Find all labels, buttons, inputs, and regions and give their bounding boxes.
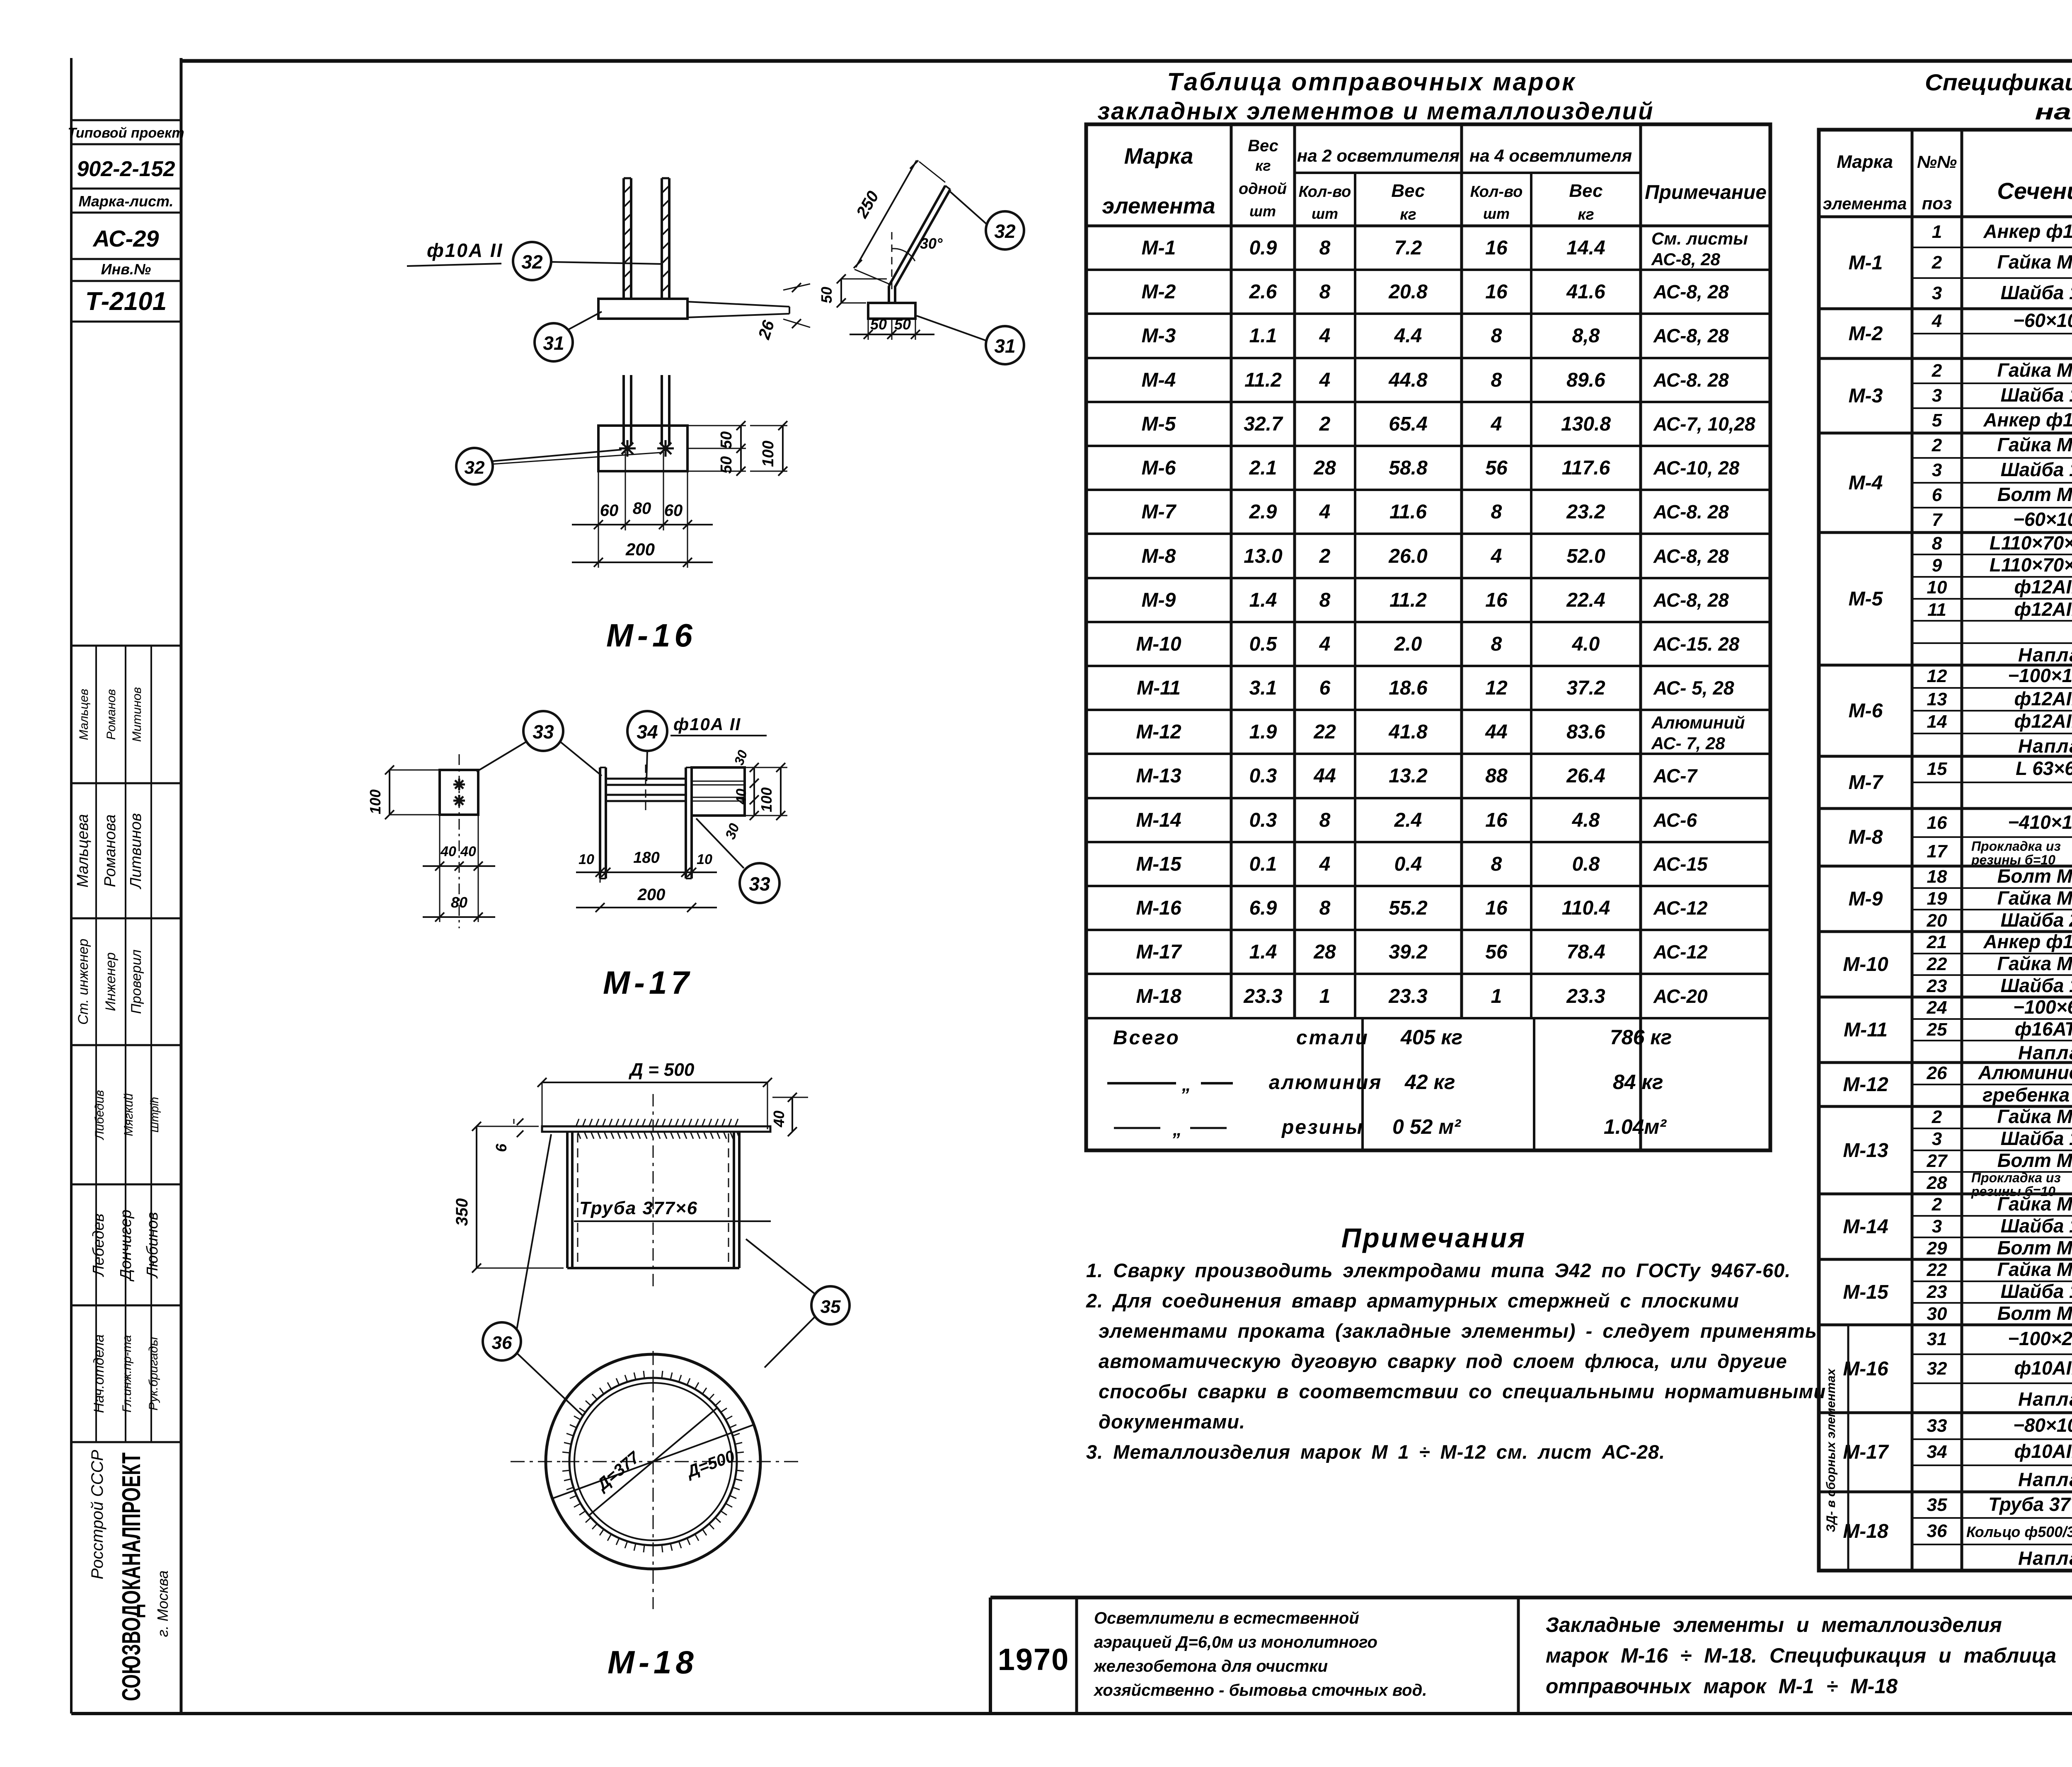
svg-text:Марка: Марка: [1124, 144, 1193, 169]
svg-text:L 63×6: L 63×6: [2016, 758, 2072, 779]
svg-text:Наплавленный металл:: Наплавленный металл:: [2018, 1547, 2072, 1569]
svg-text:М-4: М-4: [1142, 369, 1176, 391]
svg-text:9: 9: [1932, 555, 1942, 576]
svg-text:Либедив: Либедив: [93, 1090, 107, 1140]
svg-text:Прокладка из: Прокладка из: [1971, 839, 2061, 854]
svg-text:СОЮЗВОДОКАНАЛПРОЕКТ: СОЮЗВОДОКАНАЛПРОЕКТ: [117, 1452, 146, 1701]
svg-text:56: 56: [1485, 457, 1508, 479]
svg-text:1: 1: [1491, 985, 1502, 1007]
svg-text:М-4: М-4: [1849, 472, 1883, 494]
svg-text:способы сварки в соответств: способы сварки в соответствии со специал…: [1099, 1380, 1826, 1402]
svg-text:Шайба 20: Шайба 20: [2001, 909, 2072, 931]
svg-text:АС-29: АС-29: [92, 225, 159, 252]
svg-text:10: 10: [579, 852, 594, 867]
svg-text:2.9: 2.9: [1249, 501, 1277, 523]
svg-text:32: 32: [521, 251, 543, 273]
svg-text:16: 16: [1485, 589, 1508, 611]
svg-text:М-17: М-17: [1136, 941, 1182, 963]
svg-text:Типовой проект: Типовой проект: [68, 125, 184, 141]
svg-text:Наплавленный металл:: Наплавленный металл:: [2018, 735, 2072, 757]
svg-text:Шайба 12: Шайба 12: [2001, 975, 2072, 996]
svg-text:1.04м²: 1.04м²: [1604, 1115, 1667, 1138]
svg-text:8: 8: [1491, 853, 1502, 875]
svg-text:29: 29: [1927, 1238, 1947, 1259]
svg-text:78.4: 78.4: [1566, 941, 1605, 963]
svg-text:М-18: М-18: [608, 1644, 698, 1680]
svg-text:8,8: 8,8: [1572, 325, 1600, 347]
svg-text:АС-8, 28: АС-8, 28: [1651, 249, 1721, 269]
svg-text:44: 44: [1485, 721, 1507, 743]
svg-text:Любинов: Любинов: [144, 1212, 161, 1279]
svg-text:Мальцев: Мальцев: [77, 689, 91, 740]
svg-text:28: 28: [1927, 1173, 1947, 1193]
svg-text:Литвинов: Литвинов: [127, 813, 145, 890]
svg-text:25: 25: [1927, 1019, 1947, 1040]
svg-text:1.4: 1.4: [1249, 941, 1277, 963]
svg-text:М-3: М-3: [1142, 325, 1176, 347]
svg-text:26.0: 26.0: [1388, 545, 1428, 567]
svg-text:−410×10: −410×10: [2008, 811, 2072, 833]
svg-text:88: 88: [1485, 765, 1508, 787]
svg-text:83.6: 83.6: [1566, 721, 1605, 743]
svg-text:хозяйственно - бытовьа сточны: хозяйственно - бытовьа сточных вод.: [1093, 1681, 1427, 1699]
svg-text:3: 3: [1932, 1216, 1942, 1237]
svg-text:Кольцо ф500/379 б-6: Кольцо ф500/379 б-6: [1966, 1523, 2072, 1540]
svg-text:М-5: М-5: [1142, 413, 1176, 435]
svg-text:26: 26: [1927, 1063, 1947, 1083]
svg-text:М-16: М-16: [606, 617, 697, 654]
svg-text:4.4: 4.4: [1394, 325, 1422, 347]
svg-text:33: 33: [533, 721, 554, 743]
svg-text:ф16АТ: ф16АТ: [2015, 1018, 2072, 1040]
svg-text:АС- 7, 28: АС- 7, 28: [1651, 733, 1725, 753]
svg-text:Гайка М16: Гайка М16: [1997, 359, 2072, 381]
svg-text:130.8: 130.8: [1561, 413, 1611, 435]
svg-text:22.4: 22.4: [1566, 589, 1605, 611]
svg-text:−100×28: −100×28: [2008, 1328, 2072, 1349]
svg-text:Примечание: Примечание: [1645, 182, 1767, 203]
svg-text:56: 56: [1485, 941, 1508, 963]
svg-text:1.4: 1.4: [1249, 589, 1277, 611]
svg-text:22: 22: [1927, 954, 1947, 974]
svg-text:3.1: 3.1: [1249, 677, 1277, 699]
svg-text:42 кг: 42 кг: [1404, 1070, 1455, 1094]
svg-text:отправочных марок М: отправочных марок М-1 ÷ М-18: [1546, 1675, 1898, 1698]
svg-text:−80×10: −80×10: [2013, 1414, 2072, 1436]
svg-text:Т-2101: Т-2101: [85, 287, 167, 316]
svg-text:1970: 1970: [998, 1642, 1070, 1677]
svg-text:Болт М16: Болт М16: [1997, 1237, 2072, 1259]
svg-text:36: 36: [492, 1333, 512, 1353]
svg-text:16: 16: [1485, 237, 1508, 259]
svg-text:8: 8: [1319, 237, 1331, 259]
svg-text:−60×10: −60×10: [2013, 310, 2072, 331]
svg-text:алюминия: алюминия: [1269, 1072, 1382, 1094]
svg-text:кг: кг: [1578, 206, 1594, 223]
svg-text:М-11: М-11: [1844, 1019, 1888, 1041]
svg-text:АС-10, 28: АС-10, 28: [1653, 457, 1740, 479]
svg-text:41.6: 41.6: [1566, 281, 1605, 303]
svg-text:М-1: М-1: [1142, 237, 1176, 259]
svg-text:40: 40: [733, 789, 749, 805]
svg-text:27: 27: [1927, 1151, 1948, 1171]
svg-text:44: 44: [1313, 765, 1336, 787]
svg-text:Шайба 16: Шайба 16: [2001, 1215, 2072, 1237]
svg-text:11.2: 11.2: [1389, 589, 1427, 611]
svg-text:16: 16: [1485, 897, 1508, 919]
svg-text:33: 33: [749, 873, 770, 895]
svg-text:2.4: 2.4: [1394, 809, 1422, 831]
svg-text:1. Сварку производить эле: 1. Сварку производить электродами типа Э…: [1086, 1259, 1791, 1281]
svg-text:26.4: 26.4: [1566, 765, 1605, 787]
svg-text:32: 32: [465, 457, 485, 478]
svg-text:документами.: документами.: [1099, 1411, 1245, 1433]
svg-text:65.4: 65.4: [1389, 413, 1427, 435]
svg-text:50: 50: [894, 316, 911, 333]
svg-text:20: 20: [1927, 910, 1947, 931]
svg-text:60: 60: [664, 501, 683, 520]
svg-text:17: 17: [1927, 841, 1948, 862]
svg-text:8: 8: [1491, 633, 1502, 655]
svg-text:ф12АII: ф12АII: [2014, 598, 2072, 620]
svg-text:Наплавленный металл:: Наплавленный металл:: [2018, 644, 2072, 666]
svg-text:Болт М12: Болт М12: [1997, 1302, 2072, 1324]
svg-text:13.2: 13.2: [1389, 765, 1428, 787]
svg-text:100: 100: [367, 789, 384, 814]
svg-text:ф12АII: ф12АII: [2014, 688, 2072, 709]
svg-text:Вес: Вес: [1248, 137, 1278, 155]
svg-text:на 2 осветлителя: на 2 осветлителя: [1297, 146, 1460, 165]
svg-text:100: 100: [760, 441, 777, 467]
svg-text:М-16: М-16: [1843, 1358, 1888, 1380]
svg-text:железобетона для очистк: железобетона для очистки: [1093, 1657, 1328, 1675]
svg-text:М-17: М-17: [1843, 1441, 1889, 1463]
svg-text:2: 2: [1319, 413, 1331, 435]
svg-text:Инженер: Инженер: [103, 952, 119, 1011]
svg-text:М-7: М-7: [1142, 501, 1177, 523]
svg-text:Болт М16: Болт М16: [1997, 1150, 2072, 1171]
svg-text:110.4: 110.4: [1562, 897, 1610, 919]
svg-text:резины: резины: [1281, 1116, 1364, 1138]
svg-text:элемента: элемента: [1102, 194, 1215, 218]
svg-text:Спецификация стали (Ст.3 ГОСТ: Спецификация стали (Ст.3 ГОСТ 380-60*): [1925, 69, 2072, 95]
svg-text:2: 2: [1932, 435, 1942, 455]
svg-text:кг: кг: [1255, 157, 1271, 174]
svg-text:М-13: М-13: [1136, 765, 1181, 787]
svg-text:12: 12: [1485, 677, 1508, 699]
svg-text:8: 8: [1491, 369, 1502, 391]
svg-text:23.3: 23.3: [1243, 985, 1283, 1007]
svg-text:Анкер ф16АТ: Анкер ф16АТ: [1983, 409, 2072, 431]
svg-text:АС-8. 28: АС-8. 28: [1653, 369, 1729, 391]
svg-text:М-18: М-18: [1136, 985, 1181, 1007]
svg-text:Всего: Всего: [1113, 1027, 1180, 1049]
svg-text:Закладные элементы и метал: Закладные элементы и металлоизделия: [1546, 1613, 2002, 1636]
svg-text:31: 31: [994, 335, 1015, 357]
svg-text:0 52 м²: 0 52 м²: [1392, 1115, 1461, 1138]
svg-text:М-14: М-14: [1843, 1216, 1888, 1238]
svg-text:ф10А II: ф10А II: [427, 240, 503, 261]
svg-text:М-14: М-14: [1136, 809, 1181, 831]
svg-text:М-10: М-10: [1843, 954, 1888, 975]
svg-text:М-6: М-6: [1142, 457, 1176, 479]
svg-text:Наплавленный металл:: Наплавленный металл:: [2018, 1388, 2072, 1410]
svg-text:ф10АII: ф10АII: [2014, 1357, 2072, 1379]
svg-text:50: 50: [718, 456, 735, 474]
svg-text:0.4: 0.4: [1394, 853, 1422, 875]
svg-text:40: 40: [460, 844, 476, 859]
svg-text:АС-12: АС-12: [1653, 941, 1708, 963]
svg-text:31: 31: [1927, 1329, 1947, 1349]
svg-text:11: 11: [1927, 600, 1946, 620]
svg-text:автоматическую дуговую сварк: автоматическую дуговую сварку под слоем …: [1099, 1350, 1787, 1372]
svg-text:4: 4: [1319, 853, 1331, 875]
svg-text:3: 3: [1932, 385, 1942, 406]
svg-text:Вес: Вес: [1391, 181, 1425, 201]
svg-text:3. Металлоизделия марок М: 3. Металлоизделия марок М 1 ÷ М-12 см. л…: [1086, 1441, 1665, 1463]
svg-text:Гл.инж.пр-та: Гл.инж.пр-та: [120, 1335, 134, 1413]
svg-text:22: 22: [1927, 1260, 1947, 1280]
svg-text:36: 36: [1927, 1521, 1947, 1541]
svg-text:19: 19: [1927, 888, 1947, 909]
svg-text:6: 6: [1932, 485, 1942, 505]
svg-text:Росстрой СССР: Росстрой СССР: [88, 1450, 107, 1579]
svg-text:16: 16: [1485, 281, 1508, 303]
svg-text:3: 3: [1932, 283, 1942, 303]
svg-text:М-18: М-18: [1843, 1520, 1888, 1542]
svg-text:См. листы: См. листы: [1651, 229, 1748, 248]
svg-text:40: 40: [440, 844, 456, 859]
svg-text:Проверил: Проверил: [128, 949, 144, 1014]
svg-text:14.4: 14.4: [1566, 237, 1605, 259]
svg-text:Гайка М16: Гайка М16: [1997, 1106, 2072, 1127]
svg-text:30°: 30°: [920, 235, 943, 252]
svg-text:18.6: 18.6: [1389, 677, 1428, 699]
svg-text:АС-8, 28: АС-8, 28: [1653, 545, 1729, 567]
svg-text:ф10АII: ф10АII: [2014, 1440, 2072, 1462]
svg-text:80: 80: [633, 499, 651, 518]
svg-text:4: 4: [1319, 325, 1331, 347]
svg-text:Романова: Романова: [102, 814, 119, 887]
svg-text:−100×6: −100×6: [2013, 996, 2072, 1018]
svg-text:4: 4: [1491, 413, 1502, 435]
svg-text:2.1: 2.1: [1249, 457, 1277, 479]
svg-text:Гайка М16: Гайка М16: [1997, 434, 2072, 455]
svg-text:L110×70×6.5: L110×70×6.5: [1990, 554, 2072, 576]
svg-text:М-10: М-10: [1136, 633, 1181, 655]
svg-text:0.1: 0.1: [1249, 853, 1277, 875]
svg-text:1.1: 1.1: [1249, 325, 1277, 347]
svg-text:одной: одной: [1239, 180, 1287, 198]
svg-text:Романов: Романов: [104, 689, 118, 740]
svg-text:М-1: М-1: [1849, 252, 1883, 274]
svg-text:Таблица отправочных марок: Таблица отправочных марок: [1167, 68, 1576, 96]
svg-text:М-11: М-11: [1137, 677, 1181, 699]
svg-text:405 кг: 405 кг: [1400, 1026, 1462, 1049]
svg-text:0.8: 0.8: [1572, 853, 1600, 875]
svg-text:Ст. инженер: Ст. инженер: [75, 939, 91, 1025]
svg-text:М-3: М-3: [1849, 385, 1883, 407]
svg-text:4: 4: [1319, 633, 1331, 655]
svg-text:Шайба 16: Шайба 16: [2001, 1128, 2072, 1149]
svg-text:Сечение: Сечение: [1997, 178, 2072, 204]
svg-text:М-15: М-15: [1136, 853, 1182, 875]
svg-text:АС- 5, 28: АС- 5, 28: [1653, 677, 1734, 699]
svg-text:Нач.отдела: Нач.отдела: [91, 1334, 107, 1413]
svg-text:АС-20: АС-20: [1653, 985, 1708, 1007]
svg-text:М-17: М-17: [603, 964, 693, 1001]
svg-text:7.2: 7.2: [1394, 237, 1422, 259]
svg-text:L110×70×6.5: L110×70×6.5: [1990, 532, 2072, 554]
svg-text:4.0: 4.0: [1572, 633, 1600, 655]
svg-text:М-13: М-13: [1843, 1140, 1888, 1162]
svg-text:8: 8: [1932, 533, 1942, 554]
svg-text:10: 10: [697, 852, 712, 867]
svg-text:34: 34: [1927, 1442, 1947, 1462]
svg-text:39.2: 39.2: [1389, 941, 1428, 963]
svg-text:Шайба 12: Шайба 12: [2001, 1280, 2072, 1302]
svg-text:шт: шт: [1249, 203, 1276, 220]
svg-text:на один элемент: на один элемент: [2035, 99, 2072, 124]
svg-text:15: 15: [1927, 759, 1947, 779]
svg-text:г. Москва: г. Москва: [154, 1571, 171, 1637]
svg-text:2: 2: [1932, 1107, 1942, 1127]
svg-text:стали: стали: [1296, 1027, 1369, 1049]
svg-text:16: 16: [1485, 809, 1508, 831]
svg-text:Мягкий: Мягкий: [122, 1093, 136, 1136]
svg-text:8: 8: [1491, 325, 1502, 347]
svg-text:4: 4: [1319, 501, 1331, 523]
svg-text:М-9: М-9: [1142, 589, 1176, 611]
svg-text:2.6: 2.6: [1249, 281, 1277, 303]
svg-text:Д = 500: Д = 500: [628, 1060, 695, 1080]
svg-text:Марка: Марка: [1837, 152, 1893, 172]
svg-text:31: 31: [543, 332, 564, 354]
svg-text:50: 50: [818, 287, 835, 303]
svg-text:Гайка М16: Гайка М16: [1997, 251, 2072, 273]
svg-text:11.6: 11.6: [1389, 501, 1427, 523]
svg-text:0.5: 0.5: [1249, 633, 1278, 655]
svg-text:Алюминиевая: Алюминиевая: [1978, 1062, 2072, 1083]
svg-text:4: 4: [1932, 311, 1942, 331]
svg-text:аэрацией Д=6,0м из монолитн: аэрацией Д=6,0м из монолитного: [1094, 1633, 1377, 1651]
svg-text:23.3: 23.3: [1388, 985, 1428, 1007]
svg-text:Осветлители в естественной: Осветлители в естественной: [1094, 1609, 1359, 1627]
svg-text:32: 32: [1927, 1358, 1947, 1379]
svg-text:марок М-16 ÷ М-18. Специф: марок М-16 ÷ М-18. Спецификация и таблиц…: [1546, 1644, 2056, 1667]
svg-text:М-7: М-7: [1849, 772, 1884, 794]
svg-text:2: 2: [1319, 545, 1331, 567]
svg-text:Лебедев: Лебедев: [90, 1213, 107, 1277]
svg-text:20.8: 20.8: [1388, 281, 1428, 303]
svg-text:37.2: 37.2: [1566, 677, 1605, 699]
svg-text:Болт М16: Болт М16: [1997, 484, 2072, 505]
svg-text:Марка-лист.: Марка-лист.: [78, 193, 173, 210]
svg-text:24: 24: [1927, 997, 1947, 1018]
svg-text:8: 8: [1319, 809, 1331, 831]
svg-text:Мальцева: Мальцева: [74, 814, 92, 887]
svg-text:−60×10: −60×10: [2013, 508, 2072, 530]
svg-text:22: 22: [1313, 721, 1336, 743]
svg-text:23: 23: [1927, 1282, 1947, 1302]
svg-text:84 кг: 84 кг: [1613, 1070, 1663, 1094]
svg-text:50: 50: [870, 316, 887, 333]
svg-text:13.0: 13.0: [1244, 545, 1283, 567]
svg-text:элемента: элемента: [1823, 195, 1907, 213]
svg-text:Гайка М20: Гайка М20: [1997, 887, 2072, 909]
svg-text:Труба 377×6: Труба 377×6: [1988, 1493, 2072, 1515]
svg-text:М-16: М-16: [1136, 897, 1181, 919]
svg-text:6.9: 6.9: [1249, 897, 1277, 919]
svg-text:60: 60: [600, 501, 619, 520]
svg-text:Шайба 16: Шайба 16: [2001, 384, 2072, 406]
svg-text:11.2: 11.2: [1244, 369, 1282, 391]
svg-text:44.8: 44.8: [1388, 369, 1428, 391]
svg-text:1.9: 1.9: [1249, 721, 1277, 743]
svg-text:16: 16: [1927, 813, 1947, 833]
svg-text:4: 4: [1319, 369, 1331, 391]
svg-text:6: 6: [493, 1143, 510, 1152]
svg-text:3: 3: [1932, 1129, 1942, 1149]
svg-text:№№: №№: [1917, 152, 1957, 172]
svg-text:350: 350: [453, 1198, 471, 1226]
svg-text:ф12АII: ф12АII: [2014, 576, 2072, 598]
svg-text:8: 8: [1491, 501, 1502, 523]
svg-text:АС-8, 28: АС-8, 28: [1653, 325, 1729, 346]
svg-text:ф10А II: ф10А II: [673, 714, 741, 734]
svg-text:8: 8: [1319, 589, 1331, 611]
svg-text:шт: шт: [1483, 205, 1510, 222]
svg-text:8: 8: [1319, 897, 1331, 919]
svg-text:Шайба 16: Шайба 16: [2001, 459, 2072, 480]
svg-text:АС-8, 28: АС-8, 28: [1653, 281, 1729, 303]
svg-text:1: 1: [1319, 985, 1331, 1007]
svg-text:58.8: 58.8: [1389, 457, 1428, 479]
svg-text:4.8: 4.8: [1572, 809, 1600, 831]
svg-text:закладных элементов и металлои: закладных элементов и металлоизделий: [1097, 98, 1654, 125]
svg-text:0.3: 0.3: [1249, 809, 1277, 831]
svg-text:23.2: 23.2: [1566, 501, 1605, 523]
svg-text:АС-8. 28: АС-8. 28: [1653, 501, 1729, 523]
svg-text:Анкер ф16АТ: Анкер ф16АТ: [1983, 220, 2072, 242]
svg-text:Рук.бригады: Рук.бригады: [147, 1337, 160, 1411]
svg-text:89.6: 89.6: [1566, 369, 1605, 391]
svg-text:4: 4: [1491, 545, 1502, 567]
svg-text:0.3: 0.3: [1249, 765, 1277, 787]
svg-text:шт: шт: [1312, 205, 1338, 222]
svg-text:Митинов: Митинов: [130, 687, 144, 742]
svg-text:902-2-152: 902-2-152: [77, 157, 175, 181]
svg-text:Примечания: Примечания: [1341, 1222, 1526, 1253]
svg-text:2.0: 2.0: [1394, 633, 1422, 655]
svg-text:6: 6: [1319, 677, 1331, 699]
svg-text:50: 50: [718, 431, 735, 449]
svg-text:180: 180: [633, 849, 659, 867]
svg-text:23.3: 23.3: [1566, 985, 1605, 1007]
svg-text:Шайба 16: Шайба 16: [2001, 282, 2072, 303]
svg-text:М-12: М-12: [1843, 1074, 1888, 1096]
svg-text:33: 33: [1927, 1416, 1947, 1436]
svg-text:1: 1: [1932, 222, 1942, 242]
svg-text:14: 14: [1927, 712, 1947, 732]
svg-text:АС-15: АС-15: [1653, 853, 1708, 875]
svg-text:Гайка М12: Гайка М12: [1997, 1259, 2072, 1280]
svg-text:2: 2: [1932, 1194, 1942, 1215]
svg-text:8: 8: [1319, 281, 1331, 303]
svg-text:Вес: Вес: [1569, 181, 1602, 201]
svg-text:12: 12: [1927, 666, 1947, 686]
svg-text:21: 21: [1927, 932, 1947, 952]
